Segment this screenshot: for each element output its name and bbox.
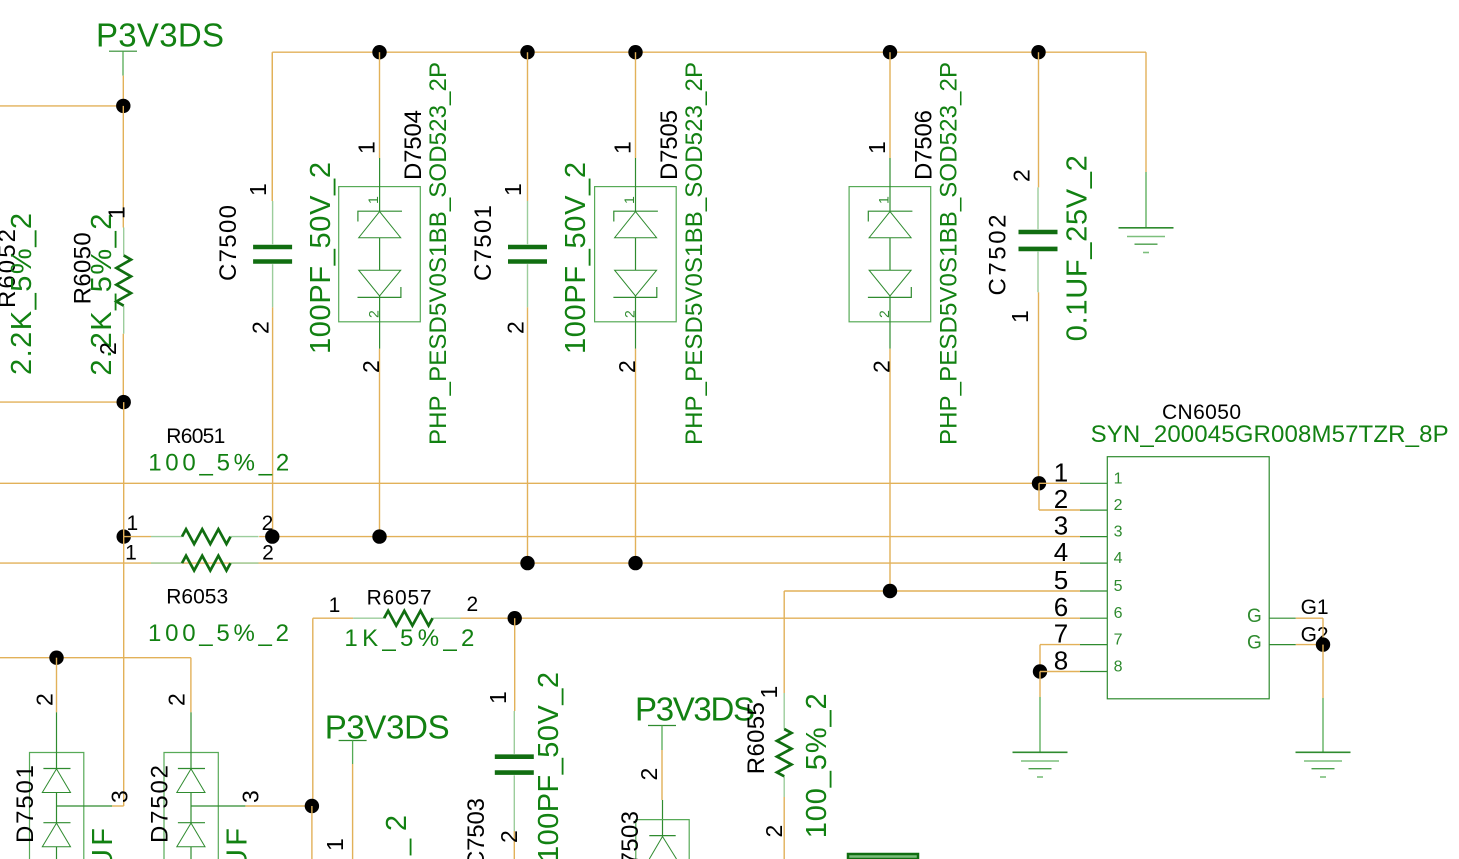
svg-text:2: 2 [496, 830, 522, 843]
svg-text:2: 2 [262, 512, 274, 535]
svg-text:2: 2 [95, 342, 121, 355]
node junction pin8 [1033, 664, 1047, 678]
svg-text:3: 3 [1114, 524, 1123, 541]
capacitor C7501 [527, 201, 529, 244]
svg-text:G1: G1 [1301, 596, 1329, 619]
resistor R6055 [783, 693, 785, 729]
pin G stub 2 CN6050 [1269, 644, 1296, 646]
svg-text:2: 2 [1009, 169, 1035, 182]
wire D7504 column [379, 52, 381, 158]
node junction R6051 pin1 [117, 529, 131, 543]
svg-text:C7501: C7501 [470, 205, 497, 281]
capacitor C7503 [513, 711, 515, 754]
svg-text:D7504: D7504 [400, 110, 427, 180]
wire pin1 to CN [1039, 482, 1080, 484]
svg-text:2: 2 [366, 310, 382, 318]
svg-text:1: 1 [354, 141, 380, 154]
pin stub 2 CN6050 [1080, 509, 1107, 511]
wire pin8 to ground [1039, 672, 1041, 698]
svg-text:1: 1 [864, 141, 890, 154]
node junction [116, 99, 130, 113]
resistor R6050 [123, 228, 125, 256]
svg-text:2: 2 [503, 321, 529, 334]
svg-text:2.2K_5%_2: 2.2K_5%_2 [6, 213, 38, 375]
svg-text:2: 2 [31, 693, 57, 706]
wire C7503 down [513, 831, 515, 859]
svg-text:C7503: C7503 [463, 798, 490, 859]
wire C7502 column [1038, 52, 1040, 187]
svg-text:1: 1 [329, 594, 341, 617]
svg-text:7: 7 [1054, 619, 1068, 649]
node junction C7501 row4 [520, 556, 534, 570]
pin stub 5 CN6050 [1080, 590, 1107, 592]
svg-text:UF: UF [222, 828, 254, 859]
wire P3V3DS 3 down [661, 750, 663, 800]
node junction R6050 bottom [117, 395, 131, 409]
node junction pin1 [1032, 476, 1046, 490]
svg-text:1: 1 [103, 206, 129, 219]
svg-text:D7505: D7505 [656, 110, 683, 180]
svg-text:1K_5%_2: 1K_5%_2 [344, 625, 474, 652]
wire net row pin1 [0, 482, 1039, 484]
wire P3V3DS to junction [122, 76, 124, 106]
svg-text:2: 2 [262, 542, 274, 565]
wire net row pin6 [313, 617, 353, 619]
svg-text:SYN_200045GR008M57TZR_8P: SYN_200045GR008M57TZR_8P [1091, 421, 1449, 448]
wire net row pin3 [259, 536, 1080, 538]
wire R6051 pin1 lead [124, 536, 151, 538]
svg-text:2: 2 [636, 768, 662, 781]
resistor R6057 [353, 617, 384, 619]
capacitor C7502 [1037, 187, 1039, 229]
wire D7501 pin3 [57, 805, 113, 807]
svg-text:1: 1 [1054, 457, 1068, 487]
wire pin8 stub [1040, 671, 1080, 673]
svg-text:2: 2 [248, 321, 274, 334]
wire D7502 pin3 [191, 805, 245, 807]
wire R6057 pin2 to pin6 and C7503 [514, 618, 516, 711]
wire D7506 column [889, 52, 891, 158]
pin stub 7 CN6050 [1080, 644, 1107, 646]
node junction rail D7505 [628, 45, 642, 59]
svg-text:P3V3DS: P3V3DS [96, 17, 224, 54]
svg-text:1: 1 [610, 141, 636, 154]
svg-text:G: G [1247, 606, 1262, 627]
diode D7501 [30, 753, 84, 859]
diode D7504 (TVS) [339, 187, 421, 322]
node junction D7504 row3 [372, 529, 386, 543]
svg-text:1: 1 [1007, 310, 1033, 323]
svg-text:4: 4 [1054, 537, 1068, 567]
svg-text:1: 1 [365, 196, 381, 204]
svg-text:PHP_PESD5V0S1BB_SOD523_2P: PHP_PESD5V0S1BB_SOD523_2P [936, 62, 963, 445]
diode D7502 [164, 753, 218, 859]
svg-text:R6051: R6051 [166, 425, 225, 448]
wire G2 to ground [1322, 645, 1324, 698]
svg-text:R6055: R6055 [743, 702, 770, 774]
svg-text:R6057: R6057 [367, 587, 432, 610]
svg-text:100_5%_2: 100_5%_2 [148, 620, 289, 647]
svg-text:2: 2 [466, 593, 478, 616]
svg-text:1: 1 [621, 196, 637, 204]
wire P3V3DS 2 down [352, 764, 354, 859]
wire top P3V3DS rail [272, 51, 1146, 53]
ground (top right) [1119, 227, 1174, 229]
svg-text:100_5%_2: 100_5%_2 [148, 450, 289, 477]
svg-text:1: 1 [127, 512, 139, 535]
wire rail to ground (right) [1145, 172, 1147, 228]
svg-text:1: 1 [322, 838, 348, 851]
svg-text:4: 4 [1114, 550, 1123, 567]
wire left rail y106 [0, 105, 123, 107]
svg-text:1: 1 [1114, 470, 1123, 487]
component (cut at bottom edge) [848, 854, 918, 859]
node junction rail C7502 [1031, 45, 1045, 59]
node junction rail D7504 [372, 45, 386, 59]
pin stub 4 CN6050 [1080, 562, 1107, 564]
svg-text:C7500: C7500 [215, 205, 242, 281]
svg-text:C7502: C7502 [985, 215, 1012, 296]
wire net row pin5 [784, 590, 1080, 592]
svg-text:100PF_50V_2: 100PF_50V_2 [305, 162, 337, 354]
svg-text:1: 1 [500, 183, 526, 196]
svg-text:D7502: D7502 [146, 765, 173, 843]
svg-text:100PF_50V_2: 100PF_50V_2 [533, 672, 565, 859]
svg-text:D7503: D7503 [617, 811, 644, 859]
wire R6050 vertical to D7501 pin3 [123, 402, 125, 536]
svg-text:P3V3DS: P3V3DS [635, 691, 755, 728]
svg-text:3: 3 [107, 790, 133, 803]
node junction G2 [1316, 637, 1330, 651]
pin stub 3 CN6050 [1080, 536, 1107, 538]
connector CN6050 box [1107, 457, 1269, 699]
wire D7505 column [635, 52, 637, 158]
wire pin1 down to pin2 [1038, 483, 1040, 510]
pin G stub 1 CN6050 [1269, 617, 1296, 619]
pin stub 1 CN6050 [1080, 482, 1107, 484]
svg-text:1: 1 [485, 691, 511, 704]
svg-text:8: 8 [1054, 646, 1068, 676]
svg-text:5: 5 [1054, 565, 1068, 595]
svg-text:2: 2 [1054, 484, 1068, 514]
capacitor C7500 [272, 201, 274, 244]
svg-text:2: 2 [614, 360, 640, 373]
ground (below CN6050) [1013, 751, 1068, 753]
wire left y402 [0, 401, 123, 403]
node junction R6057 pin2 [508, 611, 522, 625]
diode D7506 (TVS) [849, 187, 931, 322]
wire C7501 column [527, 52, 529, 201]
wire pin7 net [1040, 644, 1080, 646]
wire G1 to G2 [1296, 617, 1323, 619]
svg-text:1: 1 [125, 542, 137, 565]
svg-text:1: 1 [756, 686, 782, 699]
svg-text:1: 1 [876, 196, 892, 204]
node junction rail C7501 [520, 45, 534, 59]
node junction D7506 row5 [883, 584, 897, 598]
svg-text:R6053: R6053 [166, 586, 228, 609]
node junction C7500 row3 [265, 529, 279, 543]
svg-text:100_5%_2: 100_5%_2 [801, 693, 833, 838]
svg-text:8: 8 [1114, 659, 1123, 676]
svg-text:PHP_PESD5V0S1BB_SOD523_2P: PHP_PESD5V0S1BB_SOD523_2P [681, 62, 708, 445]
pin stub 6 CN6050 [1080, 617, 1107, 619]
wire D7501 pin2 [56, 658, 58, 713]
node junction rail D7506 [883, 45, 897, 59]
diode D7503 [636, 820, 689, 859]
pin stub 8 CN6050 [1080, 671, 1107, 673]
wire net row bottom left [0, 657, 191, 659]
svg-text:0.1UF_25V_2: 0.1UF_25V_2 [1062, 155, 1094, 341]
svg-text:D7501: D7501 [12, 765, 39, 843]
diode D7505 (TVS) [595, 187, 677, 322]
svg-text:7: 7 [1114, 632, 1123, 649]
svg-text:_2: _2 [381, 815, 413, 856]
svg-text:2: 2 [876, 310, 892, 318]
node junction D7501 [49, 651, 63, 665]
svg-text:5: 5 [1114, 578, 1123, 595]
svg-text:3: 3 [1054, 511, 1068, 541]
svg-text:2: 2 [1114, 497, 1123, 514]
wire R6050 column [122, 106, 124, 228]
svg-text:2: 2 [164, 693, 190, 706]
ground (below G2) [1296, 751, 1351, 753]
wire pin5 to R6055 [783, 797, 785, 859]
svg-text:PHP_PESD5V0S1BB_SOD523_2P: PHP_PESD5V0S1BB_SOD523_2P [425, 62, 452, 445]
svg-text:3: 3 [238, 790, 264, 803]
svg-text:2: 2 [622, 310, 638, 318]
wire C7500 column [271, 52, 273, 201]
svg-text:2: 2 [761, 825, 787, 838]
svg-text:100PF_50V_2: 100PF_50V_2 [560, 162, 592, 354]
svg-text:6: 6 [1114, 605, 1123, 622]
svg-text:2: 2 [868, 360, 894, 373]
svg-text:G: G [1247, 632, 1262, 653]
svg-text:1: 1 [245, 183, 271, 196]
node junction D7502 pin3 [305, 799, 319, 813]
svg-text:UF: UF [87, 828, 119, 859]
svg-text:2: 2 [358, 360, 384, 373]
wire junction down [311, 806, 313, 859]
node junction D7505 row4 [628, 556, 642, 570]
wire net row pin4 [0, 562, 1080, 564]
resistor R6051 [151, 536, 182, 538]
resistor R6053 [151, 562, 182, 564]
svg-text:D7506: D7506 [911, 110, 938, 180]
